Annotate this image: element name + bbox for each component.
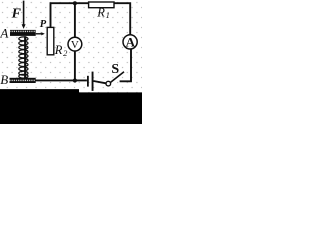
svg-text:1: 1: [106, 10, 110, 20]
svg-text:V: V: [71, 39, 79, 51]
battery cell: right plate: [92, 72, 94, 91]
plate A (top bar, hatched): [10, 30, 36, 36]
svg-text:F: F: [11, 7, 22, 22]
svg-text:R: R: [54, 43, 63, 57]
resistor R2 (vertical box): [47, 27, 54, 54]
svg-text:R: R: [96, 6, 105, 20]
ammeter A: [123, 35, 137, 49]
voltmeter V: [68, 37, 82, 51]
wire: bottom from plate B to battery: [36, 79, 87, 81]
node: junction on top wire (voltmeter branch): [73, 1, 77, 5]
spring: [19, 37, 28, 78]
svg-text:2: 2: [63, 48, 68, 58]
arrow P (slider, rightward): [36, 33, 42, 35]
halftone background: [0, 0, 142, 124]
battery cell: left plate: [87, 76, 89, 87]
wire: voltmeter branch upper: [74, 3, 76, 37]
svg-text:B: B: [0, 72, 8, 87]
plate B (bottom bar, hatched): [10, 78, 36, 83]
wire: top horizontal with left drop to R2 and right drop to ammeter: [51, 3, 131, 35]
wire: below ammeter down to bottom-right corner then left: [120, 49, 131, 81]
arrow F (force, downward): [23, 1, 25, 25]
switch S pivot: [106, 81, 111, 86]
svg-text:P: P: [40, 19, 47, 30]
black band bottom: [0, 89, 142, 124]
switch blade: [110, 72, 124, 83]
svg-text:A: A: [126, 35, 136, 50]
svg-text:A: A: [0, 25, 8, 40]
wire: voltmeter branch lower: [74, 51, 76, 81]
svg-text:S: S: [111, 62, 119, 77]
resistor R1: [89, 2, 114, 8]
node: junction bottom (voltmeter branch): [73, 78, 77, 82]
wire: battery to switch: [94, 81, 107, 83]
spring core: [24, 36, 26, 78]
